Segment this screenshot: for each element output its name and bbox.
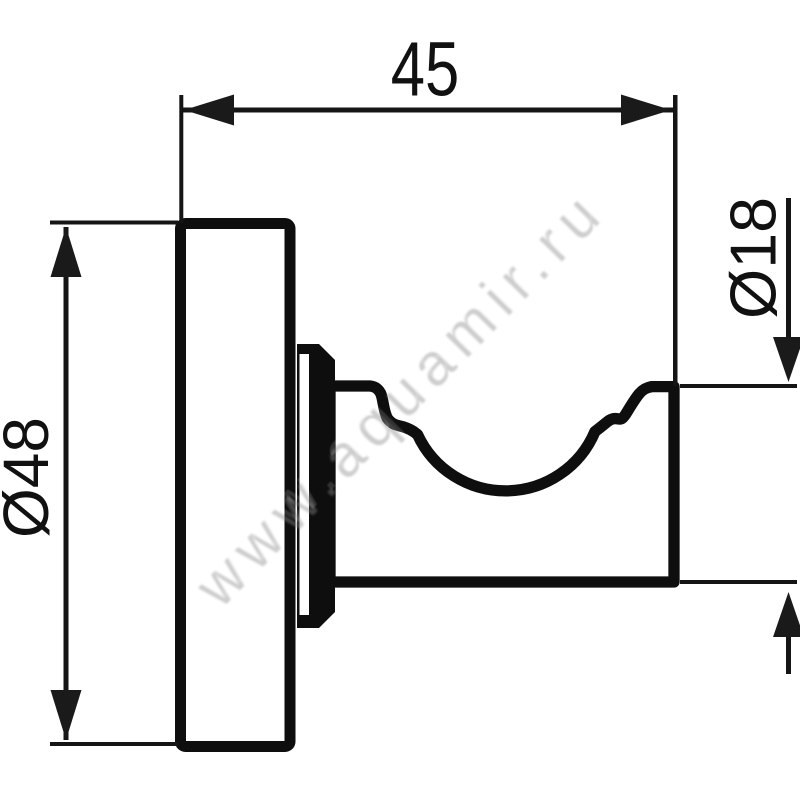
dimension 45: left arrow [184,95,234,126]
wall plate Ø48 (side view) [181,224,291,747]
dimension 45: right arrow [621,95,671,126]
watermark www.aquamir.ru [178,169,621,620]
dimension Ø48: dimension line [64,227,69,740]
svg-text:Ø48: Ø48 [0,417,62,538]
svg-text:Ø18: Ø18 [718,197,790,319]
dimension Ø48: extension tick top [50,221,178,225]
flange inner white slot [300,354,310,615]
dimension 45: extension line right [673,95,678,386]
svg-text:45: 45 [391,26,460,112]
dimension Ø18: extension line bottom [680,580,797,584]
dimension Ø48: extension tick bottom [50,742,178,746]
dimension Ø48: top arrow [51,227,82,277]
dimension Ø18: dimension line upper segment [786,198,791,339]
dimension Ø18: extension line top [680,384,797,388]
dimension 45: extension line left [179,95,183,223]
dimension 45: dimension line [182,108,674,113]
dimension Ø18: dimension line lower segment [786,637,791,674]
dimension Ø18: upper arrow (points down) [773,337,800,382]
dimension Ø18: lower arrow (points up) [773,592,800,637]
flange / collar between plate and hook [297,344,335,628]
hook body (side view, decorative profile) [330,386,674,582]
dimension Ø48: bottom arrow [51,690,82,740]
